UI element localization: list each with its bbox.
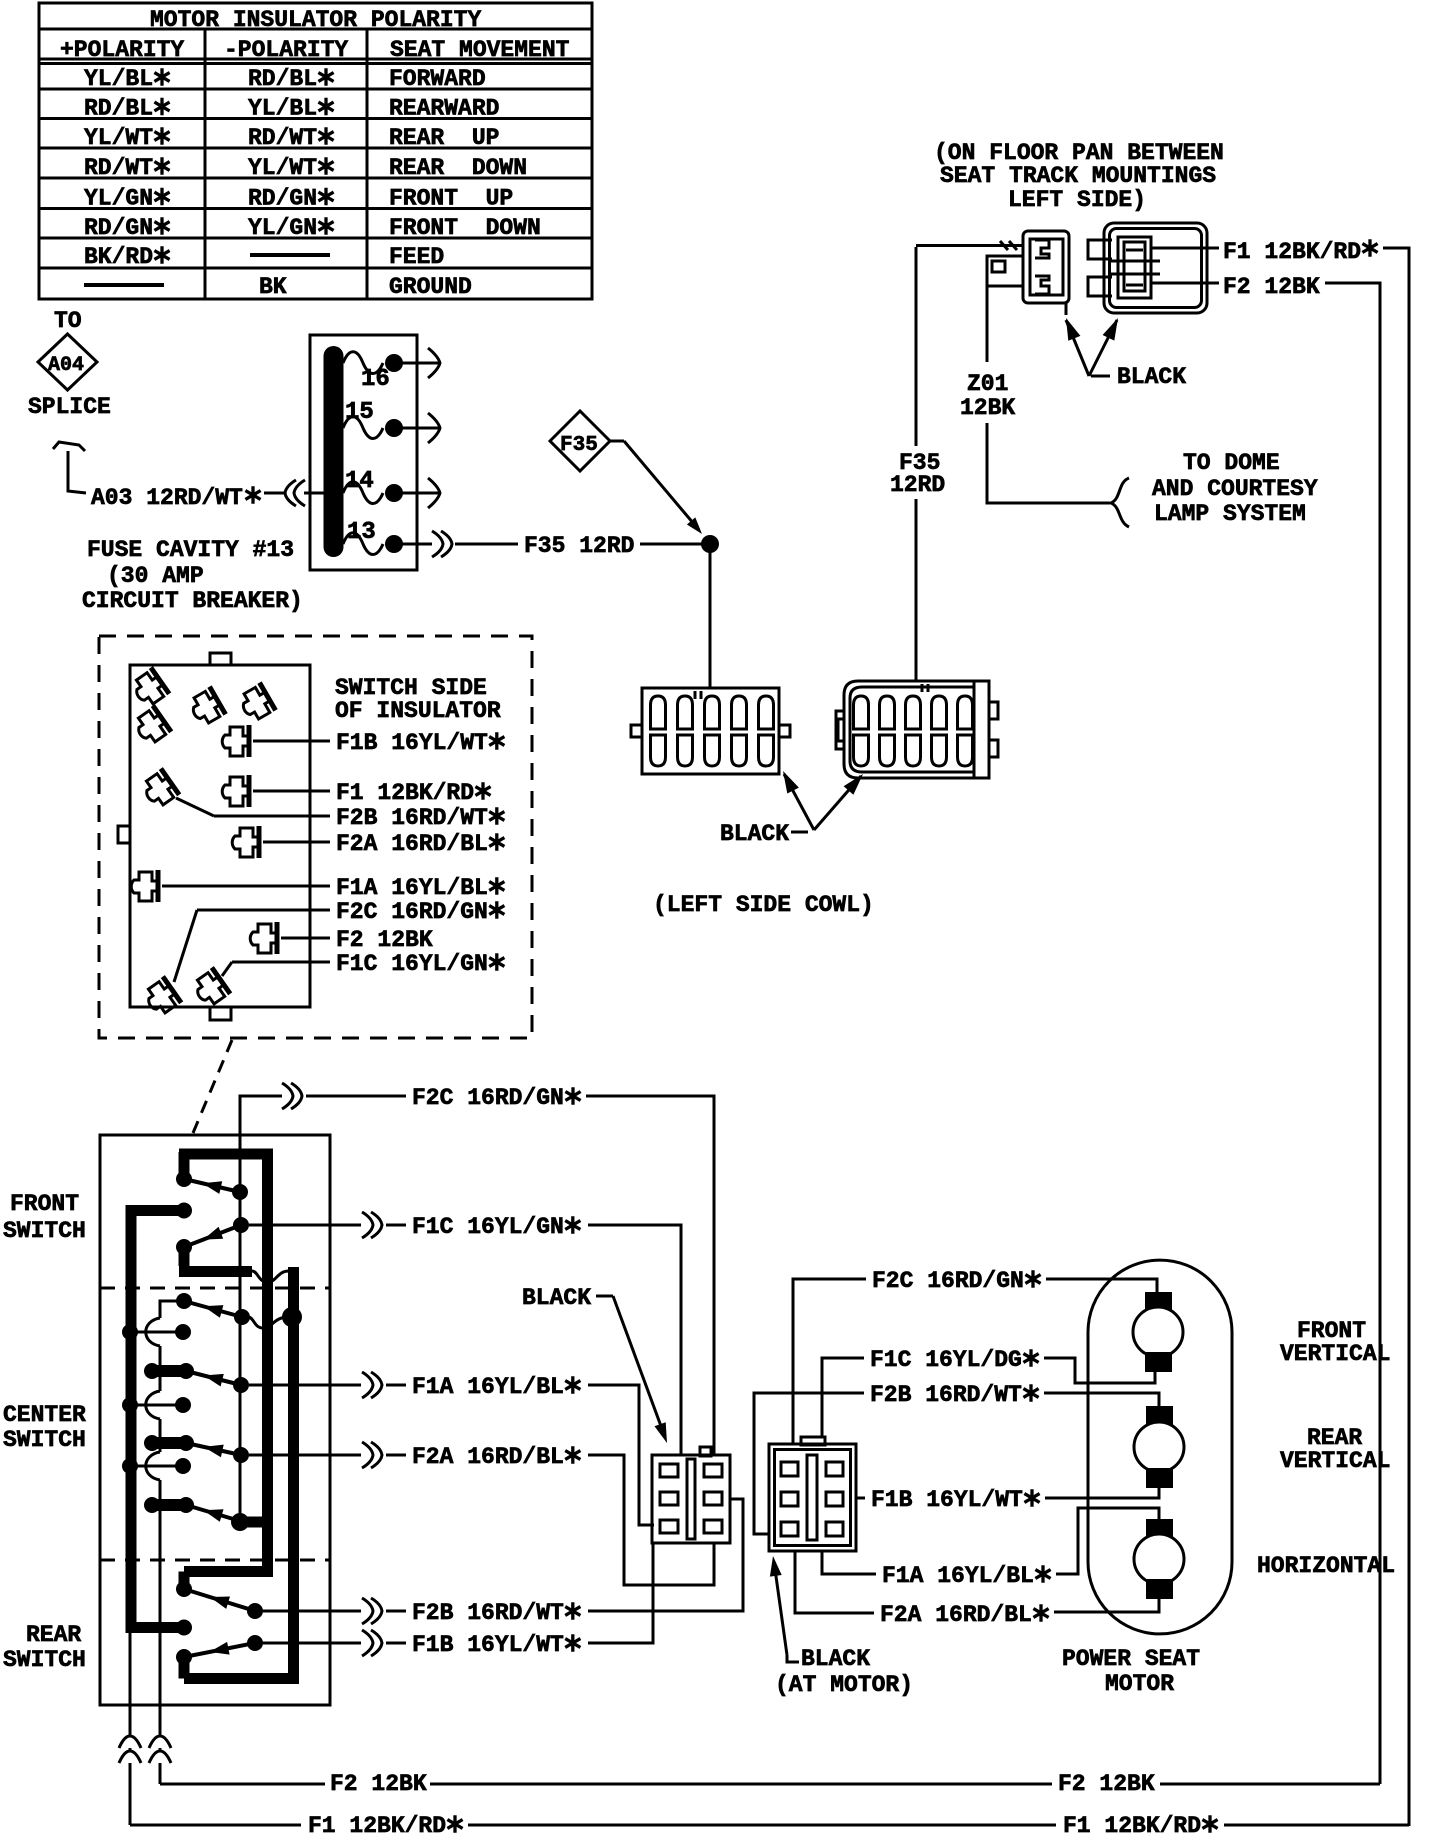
motor M2 rear vertical <box>1134 1406 1184 1488</box>
rear switch blade D <box>144 1497 240 1522</box>
insulator terminal F2 <box>250 922 433 954</box>
wire F2A 16RD/BL (switch output) <box>249 1442 714 1585</box>
wire F1A 16YL/BL (motor side) <box>822 1508 1159 1589</box>
svg-text:F1C 16YL/GN: F1C 16YL/GN <box>336 951 488 977</box>
table: MOTOR INSULATOR POLARITY frame <box>39 3 592 299</box>
center switch pivot A blade <box>176 1293 250 1325</box>
switch section dividers (dashed) <box>100 1288 330 1560</box>
svg-text:YL/BL: YL/BL <box>84 66 153 92</box>
label TO <box>54 308 82 334</box>
svg-text:F2 12BK: F2 12BK <box>1058 1771 1155 1797</box>
svg-text:FRONT UP: FRONT UP <box>389 186 513 212</box>
leader from F35 diamond <box>610 441 702 534</box>
svg-text:+POLARITY: +POLARITY <box>60 37 184 63</box>
svg-text:F1C 16YL/DG: F1C 16YL/DG <box>870 1347 1022 1373</box>
switch ground wires to bottom <box>119 1633 171 1825</box>
svg-text:TO: TO <box>54 308 82 334</box>
svg-text:REAR DOWN: REAR DOWN <box>389 155 527 181</box>
insulator terminal F1A <box>131 870 504 902</box>
svg-text:REAR: REAR <box>26 1622 81 1648</box>
label HORIZONTAL <box>1257 1553 1395 1579</box>
svg-text:BLACK: BLACK <box>801 1646 870 1672</box>
table row FORWARD <box>84 66 486 92</box>
label FRONT SWITCH <box>3 1191 86 1244</box>
insulator floating terminals <box>129 668 276 748</box>
svg-text:F2A 16RD/BL: F2A 16RD/BL <box>336 831 488 857</box>
svg-text:(LEFT SIDE COWL): (LEFT SIDE COWL) <box>653 892 874 918</box>
insulator terminal F1 <box>222 775 490 807</box>
svg-text:VERTICAL: VERTICAL <box>1280 1448 1390 1474</box>
svg-text:F2A 16RD/BL: F2A 16RD/BL <box>880 1602 1032 1628</box>
svg-text:BLACK: BLACK <box>522 1285 591 1311</box>
svg-text:F2A 16RD/BL: F2A 16RD/BL <box>412 1444 564 1470</box>
svg-text:F1B 16YL/WT: F1B 16YL/WT <box>412 1632 564 1658</box>
svg-text:F2 12BK: F2 12BK <box>1223 274 1320 300</box>
connector symbol F35 (diamond) <box>550 411 610 471</box>
svg-text:RD/GN: RD/GN <box>248 186 317 212</box>
svg-text:YL/GN: YL/GN <box>84 186 153 212</box>
svg-text:RD/WT: RD/WT <box>248 125 317 151</box>
breaker pin 14 <box>343 468 440 508</box>
wire F2B 16RD/WT (motor side) <box>754 1382 1159 1534</box>
table header row <box>60 37 570 63</box>
wire F2C 16RD/GN (switch output) <box>240 1083 714 1455</box>
svg-text:F1 12BK/RD: F1 12BK/RD <box>336 780 474 806</box>
svg-text:F1 12BK/RD: F1 12BK/RD <box>1063 1813 1201 1838</box>
motor M3 horizontal <box>1134 1519 1184 1599</box>
table row REARWARD <box>84 96 499 122</box>
connector: left cowl (10-way) <box>631 688 790 774</box>
switch assembly box <box>100 1135 330 1705</box>
wire F2 12BK (bottom) <box>160 1771 1380 1797</box>
svg-text:F1A 16YL/BL: F1A 16YL/BL <box>412 1374 564 1400</box>
svg-text:OF INSULATOR: OF INSULATOR <box>335 698 501 724</box>
center switch contact row 3 <box>122 1458 191 1474</box>
table row REAR UP <box>84 125 499 151</box>
center switch contact row 1 <box>122 1324 191 1340</box>
svg-text:GROUND: GROUND <box>389 274 472 300</box>
label REAR VERTICAL <box>1280 1425 1390 1474</box>
table row FRONT DOWN <box>84 215 541 241</box>
breaker pin 15 <box>343 399 440 443</box>
front switch lower contact bar <box>176 1239 252 1272</box>
label SPLICE <box>28 394 111 420</box>
svg-text:F2C 16RD/GN: F2C 16RD/GN <box>412 1085 564 1111</box>
svg-text:FORWARD: FORWARD <box>389 66 486 92</box>
breaker pin 13 <box>343 519 452 557</box>
center switch blade B (F1A) <box>144 1363 249 1393</box>
svg-text:LEFT SIDE): LEFT SIDE) <box>1008 187 1146 213</box>
bus bar left (F1 feed) <box>126 1203 192 1636</box>
center switch blade C (F2A) <box>144 1435 249 1463</box>
wire from plug to black arrow <box>1065 303 1068 315</box>
svg-text:HORIZONTAL: HORIZONTAL <box>1257 1553 1395 1579</box>
svg-text:VERTICAL: VERTICAL <box>1280 1341 1390 1367</box>
svg-text:YL/WT: YL/WT <box>248 155 317 181</box>
svg-text:RD/WT: RD/WT <box>84 155 153 181</box>
svg-text:F1B 16YL/WT: F1B 16YL/WT <box>336 730 488 756</box>
svg-text:POWER SEAT: POWER SEAT <box>1062 1646 1200 1672</box>
table title MOTOR INSULATOR POLARITY <box>150 7 481 33</box>
rear switch blade E (F2B) <box>184 1589 263 1619</box>
svg-text:SWITCH: SWITCH <box>3 1218 86 1244</box>
svg-text:LAMP SYSTEM: LAMP SYSTEM <box>1154 501 1306 527</box>
svg-text:BLACK: BLACK <box>1117 364 1186 390</box>
svg-text:YL/GN: YL/GN <box>248 215 317 241</box>
svg-text:F2B 16RD/WT: F2B 16RD/WT <box>870 1382 1022 1408</box>
center switch contact row 2 <box>122 1397 191 1413</box>
svg-text:REARWARD: REARWARD <box>389 96 499 122</box>
wire F2 12BK (floor pan to bottom right) <box>1151 274 1380 1784</box>
svg-text:SWITCH: SWITCH <box>3 1427 86 1453</box>
power seat motor outline <box>1088 1260 1232 1634</box>
svg-text:F35 12RD: F35 12RD <box>524 533 634 559</box>
wire F2A 16RD/BL (motor side) <box>795 1551 1159 1628</box>
table row FRONT UP <box>84 186 513 212</box>
label BLACK (switch connector) with arrow <box>522 1285 667 1443</box>
svg-text:A03 12RD/WT: A03 12RD/WT <box>91 485 243 511</box>
connector: floor pan plug (left) <box>987 231 1069 303</box>
svg-text:(30 AMP: (30 AMP <box>107 563 204 589</box>
connector symbol A04 (diamond) <box>38 334 97 390</box>
label (LEFT SIDE COWL) <box>653 892 874 918</box>
svg-text:A04: A04 <box>48 354 84 377</box>
svg-text:YL/BL: YL/BL <box>248 96 317 122</box>
svg-text:SWITCH: SWITCH <box>3 1647 86 1673</box>
svg-text:RD/BL: RD/BL <box>84 96 153 122</box>
svg-text:12BK: 12BK <box>960 395 1015 421</box>
svg-text:BK: BK <box>259 274 287 300</box>
label SWITCH SIDE OF INSULATOR <box>335 675 501 724</box>
svg-text:CENTER: CENTER <box>3 1402 86 1428</box>
svg-text:16: 16 <box>361 366 390 393</box>
wire from F35 node to left cowl connector <box>709 549 712 688</box>
wire F1C 16YL/GN (switch output) <box>249 1212 681 1455</box>
label (ON FLOOR PAN BETWEEN SEAT TRACK MOUNTINGS LEFT SIDE) <box>934 140 1224 213</box>
insulator body <box>118 653 310 1020</box>
connector: right cowl (10-way) <box>836 681 998 778</box>
connector: floor pan receptacle (right) <box>1088 223 1207 313</box>
svg-text:F1B 16YL/WT: F1B 16YL/WT <box>871 1487 1023 1513</box>
svg-text:BK/RD: BK/RD <box>84 244 153 270</box>
label BLACK (AT MOTOR) with arrow <box>770 1556 913 1698</box>
svg-text:Z01: Z01 <box>967 371 1008 397</box>
wire hop center to bus bar 2 dot <box>248 1307 302 1328</box>
label BLACK (cowl) with arrows <box>720 771 863 847</box>
wire F1B 16YL/WT (switch output) <box>263 1543 653 1658</box>
svg-text:F2 12BK: F2 12BK <box>336 927 433 953</box>
svg-text:F1 12BK/RD: F1 12BK/RD <box>1223 239 1361 265</box>
insulator terminal F1B <box>222 725 504 757</box>
svg-text:F2B 16RD/WT: F2B 16RD/WT <box>336 805 488 831</box>
wire F2B 16RD/WT (switch output) <box>263 1499 743 1626</box>
label REAR SWITCH <box>3 1622 86 1673</box>
svg-text:AND COURTESY: AND COURTESY <box>1152 476 1318 502</box>
wire F35 12RD to floor pan connector <box>890 241 1023 681</box>
wire Z01 12BK ground <box>960 286 1129 527</box>
feed column wire (F2) <box>146 1301 178 1705</box>
svg-text:TO DOME: TO DOME <box>1183 450 1280 476</box>
wire F1 12BK/RD (bottom) <box>130 1813 1409 1839</box>
svg-text:F2 12BK: F2 12BK <box>330 1771 427 1797</box>
junction dot F35 node <box>701 535 719 553</box>
svg-text:F1A 16YL/BL: F1A 16YL/BL <box>882 1563 1034 1589</box>
svg-text:F35: F35 <box>560 434 598 457</box>
wire F1C 16YL/DG (motor side) <box>822 1347 1155 1438</box>
wire F2C 16RD/GN (motor side) <box>793 1268 1157 1444</box>
label FUSE CAVITY #13 (30 AMP CIRCUIT BREAKER) <box>82 537 303 614</box>
table row REAR DOWN <box>84 155 527 181</box>
wire F35 12RD from breaker pin 13 <box>455 533 702 559</box>
svg-text:-POLARITY: -POLARITY <box>224 37 348 63</box>
label POWER SEAT MOTOR <box>1062 1646 1200 1697</box>
insulator terminal F2A <box>232 826 504 858</box>
svg-text:15: 15 <box>345 399 374 426</box>
svg-text:YL/WT: YL/WT <box>84 125 153 151</box>
circuit breaker CB (fuse cavity #13) box <box>310 335 417 570</box>
splice symbol <box>53 442 86 493</box>
insulator terminal F2B <box>139 769 504 831</box>
wire F1 12BK/RD (floor pan to bottom right) <box>1151 239 1409 1826</box>
svg-text:F1 12BK/RD: F1 12BK/RD <box>308 1813 446 1838</box>
label TO DOME AND COURTESY LAMP SYSTEM <box>1152 450 1318 527</box>
rear switch blade F (F1B) <box>184 1635 263 1657</box>
svg-text:SEAT TRACK MOUNTINGS: SEAT TRACK MOUNTINGS <box>940 163 1216 189</box>
connector: switch-to-motor (switch side) <box>652 1447 730 1543</box>
insulator terminal F2C <box>141 899 504 1018</box>
label CENTER SWITCH <box>3 1402 86 1453</box>
connector: switch-to-motor (motor side) <box>769 1437 856 1551</box>
svg-text:FRONT DOWN: FRONT DOWN <box>389 215 541 241</box>
svg-text:REAR UP: REAR UP <box>389 125 499 151</box>
table row GROUND <box>84 274 472 300</box>
svg-text:CIRCUIT BREAKER): CIRCUIT BREAKER) <box>82 588 303 614</box>
svg-text:SEAT MOVEMENT: SEAT MOVEMENT <box>390 37 570 63</box>
svg-text:F2C 16RD/GN: F2C 16RD/GN <box>872 1268 1024 1294</box>
wire F1B 16YL/WT (motor side) <box>856 1487 1159 1513</box>
output column wire (to bar1 stub) <box>231 1135 262 1531</box>
breaker bus bar <box>324 356 344 547</box>
wire hop front to bus bar 2 <box>252 1271 289 1282</box>
table row FEED <box>84 244 444 270</box>
svg-text:13: 13 <box>347 519 376 546</box>
svg-text:F1A 16YL/BL: F1A 16YL/BL <box>336 875 488 901</box>
svg-text:FRONT: FRONT <box>10 1191 79 1217</box>
svg-text:MOTOR INSULATOR POLARITY: MOTOR INSULATOR POLARITY <box>150 7 481 33</box>
svg-text:MOTOR: MOTOR <box>1105 1671 1174 1697</box>
wire A03 12RD/WT from splice <box>91 480 324 511</box>
svg-text:FEED: FEED <box>389 244 444 270</box>
svg-text:F1C 16YL/GN: F1C 16YL/GN <box>412 1214 564 1240</box>
label BLACK (floor pan) with arrows <box>1066 318 1186 390</box>
svg-text:(AT MOTOR): (AT MOTOR) <box>775 1672 913 1698</box>
svg-text:RD/GN: RD/GN <box>84 215 153 241</box>
breaker pin 16 <box>343 348 440 393</box>
label FRONT VERTICAL <box>1280 1318 1390 1367</box>
svg-text:RD/BL: RD/BL <box>248 66 317 92</box>
insulator terminal F1C <box>190 951 504 1009</box>
front switch blade 2 (F1C) <box>184 1217 249 1247</box>
svg-text:FUSE CAVITY #13: FUSE CAVITY #13 <box>87 537 294 563</box>
wire F1A 16YL/BL (switch output) <box>249 1372 654 1525</box>
svg-text:12RD: 12RD <box>890 472 945 498</box>
bus bar 2 (right) <box>176 1267 299 1679</box>
insulator dashed leader to switch <box>193 1040 232 1133</box>
front switch blade 1 <box>184 1179 248 1200</box>
svg-text:F2B 16RD/WT: F2B 16RD/WT <box>412 1600 564 1626</box>
motor M1 front vertical <box>1133 1292 1183 1372</box>
svg-text:14: 14 <box>345 468 374 495</box>
bus bar 1 (tall, right) <box>176 1152 273 1597</box>
insulator: dashed boundary box <box>99 636 532 1038</box>
svg-text:F2C 16RD/GN: F2C 16RD/GN <box>336 899 488 925</box>
svg-text:BLACK: BLACK <box>720 821 789 847</box>
svg-text:SPLICE: SPLICE <box>28 394 111 420</box>
